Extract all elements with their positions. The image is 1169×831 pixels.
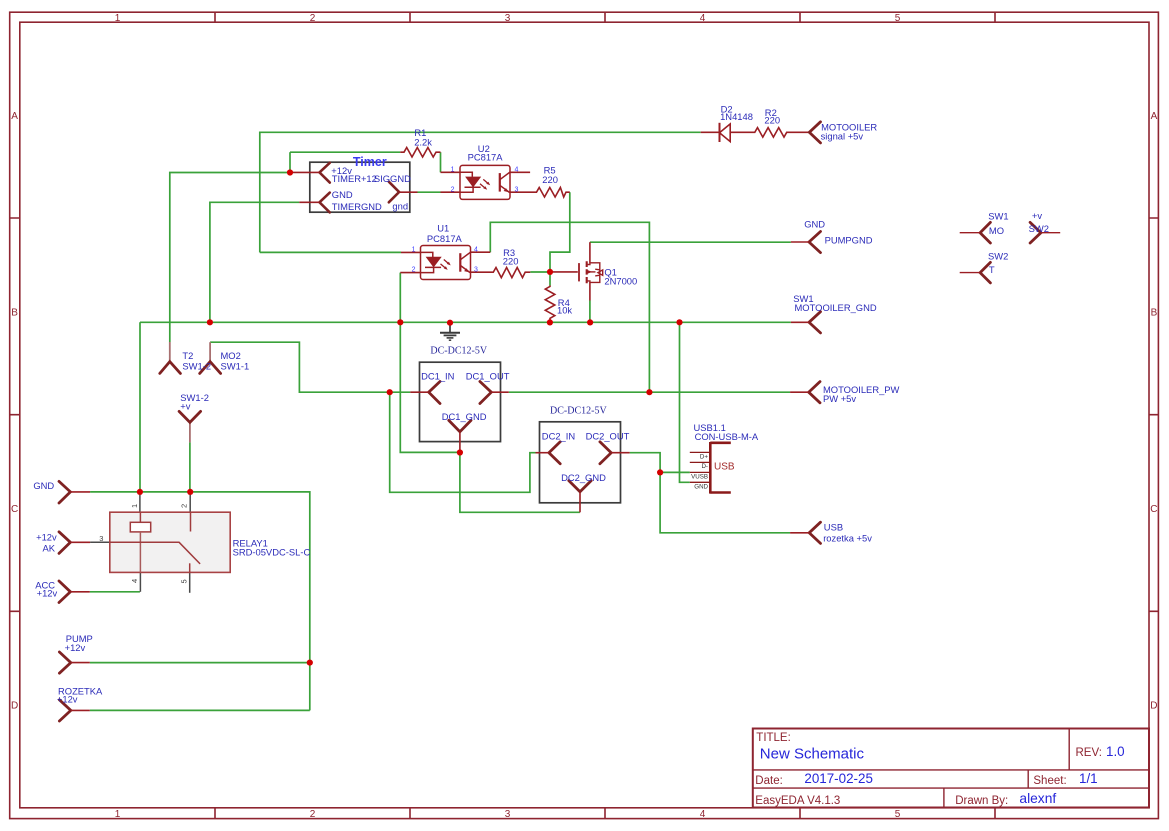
svg-text:SIGGND: SIGGND (374, 173, 411, 184)
svg-text:220: 220 (503, 255, 519, 266)
svg-text:+12v: +12v (57, 694, 78, 705)
svg-text:220: 220 (542, 174, 558, 185)
svg-text:2: 2 (412, 267, 416, 274)
svg-text:4: 4 (130, 579, 139, 583)
svg-text:+12v: +12v (36, 532, 57, 543)
svg-text:EasyEDA V4.1.3: EasyEDA V4.1.3 (755, 795, 840, 807)
svg-text:DC1_OUT: DC1_OUT (466, 370, 510, 381)
svg-text:TIMER+12: TIMER+12 (332, 173, 377, 184)
svg-text:1.0: 1.0 (1106, 744, 1125, 759)
svg-text:AK: AK (42, 543, 55, 554)
svg-text:1: 1 (115, 13, 121, 24)
svg-text:+12v: +12v (65, 642, 86, 653)
svg-text:D: D (1150, 701, 1157, 712)
svg-text:GND: GND (33, 480, 54, 491)
svg-text:C: C (11, 504, 18, 515)
svg-text:1/1: 1/1 (1079, 771, 1098, 786)
svg-text:gnd: gnd (392, 201, 408, 212)
svg-text:Sheet:: Sheet: (1033, 775, 1066, 787)
svg-text:MO: MO (989, 225, 1004, 236)
svg-text:Date:: Date: (755, 775, 783, 787)
svg-text:signal +5v: signal +5v (821, 130, 864, 141)
svg-text:rozetka +5v: rozetka +5v (823, 533, 872, 544)
svg-text:A: A (1151, 111, 1158, 122)
svg-text:B: B (1151, 308, 1158, 319)
svg-text:2: 2 (310, 809, 316, 820)
svg-text:5: 5 (895, 13, 901, 24)
svg-text:2017-02-25: 2017-02-25 (804, 771, 873, 786)
svg-text:DC1_IN: DC1_IN (421, 370, 454, 381)
svg-text:2: 2 (310, 13, 316, 24)
svg-text:T: T (989, 264, 995, 275)
svg-text:2: 2 (180, 504, 189, 508)
svg-text:SRD-05VDC-SL-C: SRD-05VDC-SL-C (233, 546, 311, 557)
svg-text:SW2: SW2 (1029, 223, 1049, 234)
svg-text:3: 3 (505, 809, 511, 820)
svg-text:Drawn By:: Drawn By: (955, 795, 1008, 807)
svg-text:4: 4 (515, 166, 519, 173)
svg-text:SW2: SW2 (988, 251, 1008, 262)
svg-text:C: C (1150, 504, 1157, 515)
svg-text:5: 5 (895, 809, 901, 820)
svg-text:4: 4 (700, 809, 706, 820)
svg-text:1N4148: 1N4148 (720, 111, 753, 122)
svg-text:A: A (11, 111, 18, 122)
svg-text:D+: D+ (700, 454, 708, 461)
svg-text:3: 3 (474, 267, 478, 274)
svg-text:TIMERGND: TIMERGND (332, 201, 382, 212)
svg-text:GND: GND (804, 218, 825, 229)
svg-text:DC2_IN: DC2_IN (542, 431, 575, 442)
svg-text:PUMPGND: PUMPGND (825, 235, 873, 246)
svg-text:TITLE:: TITLE: (756, 732, 791, 744)
svg-text:USB: USB (824, 522, 843, 533)
svg-text:3: 3 (99, 534, 103, 543)
svg-text:2: 2 (451, 186, 455, 193)
svg-text:SW1: SW1 (988, 211, 1008, 222)
svg-text:1: 1 (115, 809, 121, 820)
svg-text:USB: USB (714, 461, 735, 472)
svg-text:SW1-1: SW1-1 (221, 360, 250, 371)
svg-text:DC2_OUT: DC2_OUT (586, 431, 630, 442)
svg-text:GND: GND (694, 483, 708, 490)
svg-text:1: 1 (412, 246, 416, 253)
svg-text:SW1-2: SW1-2 (182, 360, 211, 371)
svg-text:4: 4 (700, 13, 706, 24)
svg-text:DC1_GND: DC1_GND (442, 411, 487, 422)
svg-text:4: 4 (474, 246, 478, 253)
svg-text:+v: +v (1032, 210, 1042, 221)
svg-text:PW +5v: PW +5v (823, 393, 856, 404)
svg-text:PC817A: PC817A (427, 233, 463, 244)
svg-text:MOTOOILER_GND: MOTOOILER_GND (795, 302, 877, 313)
svg-text:2N7000: 2N7000 (604, 276, 637, 287)
svg-text:220: 220 (764, 114, 780, 125)
svg-text:D: D (11, 701, 18, 712)
svg-text:5: 5 (180, 579, 189, 583)
svg-text:alexnf: alexnf (1019, 791, 1056, 806)
svg-text:1: 1 (451, 166, 455, 173)
svg-text:REV:: REV: (1076, 747, 1102, 759)
svg-text:1: 1 (130, 504, 139, 508)
svg-text:PC817A: PC817A (468, 152, 504, 163)
svg-text:3: 3 (515, 186, 519, 193)
svg-text:DC-DC12-5V: DC-DC12-5V (430, 345, 487, 356)
svg-text:DC2_GND: DC2_GND (561, 472, 606, 483)
svg-text:GND: GND (332, 189, 353, 200)
svg-text:DC-DC12-5V: DC-DC12-5V (550, 405, 607, 416)
svg-text:D-: D- (701, 463, 708, 470)
svg-text:3: 3 (505, 13, 511, 24)
svg-text:+v: +v (180, 401, 190, 412)
svg-text:B: B (11, 308, 18, 319)
svg-text:New Schematic: New Schematic (760, 745, 865, 762)
svg-text:VUSB: VUSB (691, 473, 708, 480)
svg-text:CON-USB-M-A: CON-USB-M-A (695, 431, 759, 442)
svg-text:10k: 10k (557, 305, 572, 316)
svg-text:Timer: Timer (353, 155, 387, 169)
svg-text:2.2k: 2.2k (414, 136, 432, 147)
svg-text:+12v: +12v (37, 588, 58, 599)
